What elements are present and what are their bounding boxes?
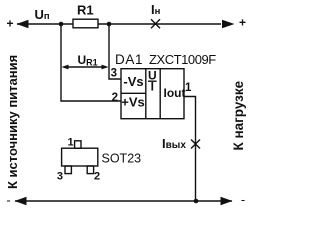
- svg-text:DA1: DA1: [115, 52, 143, 67]
- svg-text:2: 2: [112, 92, 118, 104]
- svg-text:3: 3: [57, 171, 63, 183]
- svg-text:-Vs: -Vs: [123, 74, 143, 89]
- svg-text:R1: R1: [77, 3, 94, 18]
- svg-text:Iout: Iout: [164, 86, 186, 100]
- svg-text:3: 3: [111, 68, 117, 80]
- svg-text:Iн: Iн: [151, 2, 161, 17]
- svg-text:SOT23: SOT23: [102, 152, 142, 166]
- svg-text:К источнику питания: К источнику питания: [5, 55, 20, 189]
- svg-text:1: 1: [185, 82, 192, 94]
- svg-text:1: 1: [67, 137, 73, 149]
- svg-text:I: I: [151, 80, 154, 94]
- svg-text:К нагрузке: К нагрузке: [231, 80, 246, 150]
- svg-text:2: 2: [94, 171, 100, 183]
- svg-text:ZXCT1009F: ZXCT1009F: [149, 52, 216, 67]
- svg-text:+: +: [6, 17, 13, 31]
- svg-text:+: +: [239, 16, 246, 30]
- svg-text:+Vs: +Vs: [121, 95, 145, 110]
- svg-text:-: -: [6, 193, 10, 208]
- svg-text:UR1: UR1: [78, 53, 98, 68]
- svg-text:Iвых: Iвых: [162, 136, 186, 151]
- svg-text:Uп: Uп: [35, 7, 50, 22]
- svg-text:-: -: [241, 192, 245, 207]
